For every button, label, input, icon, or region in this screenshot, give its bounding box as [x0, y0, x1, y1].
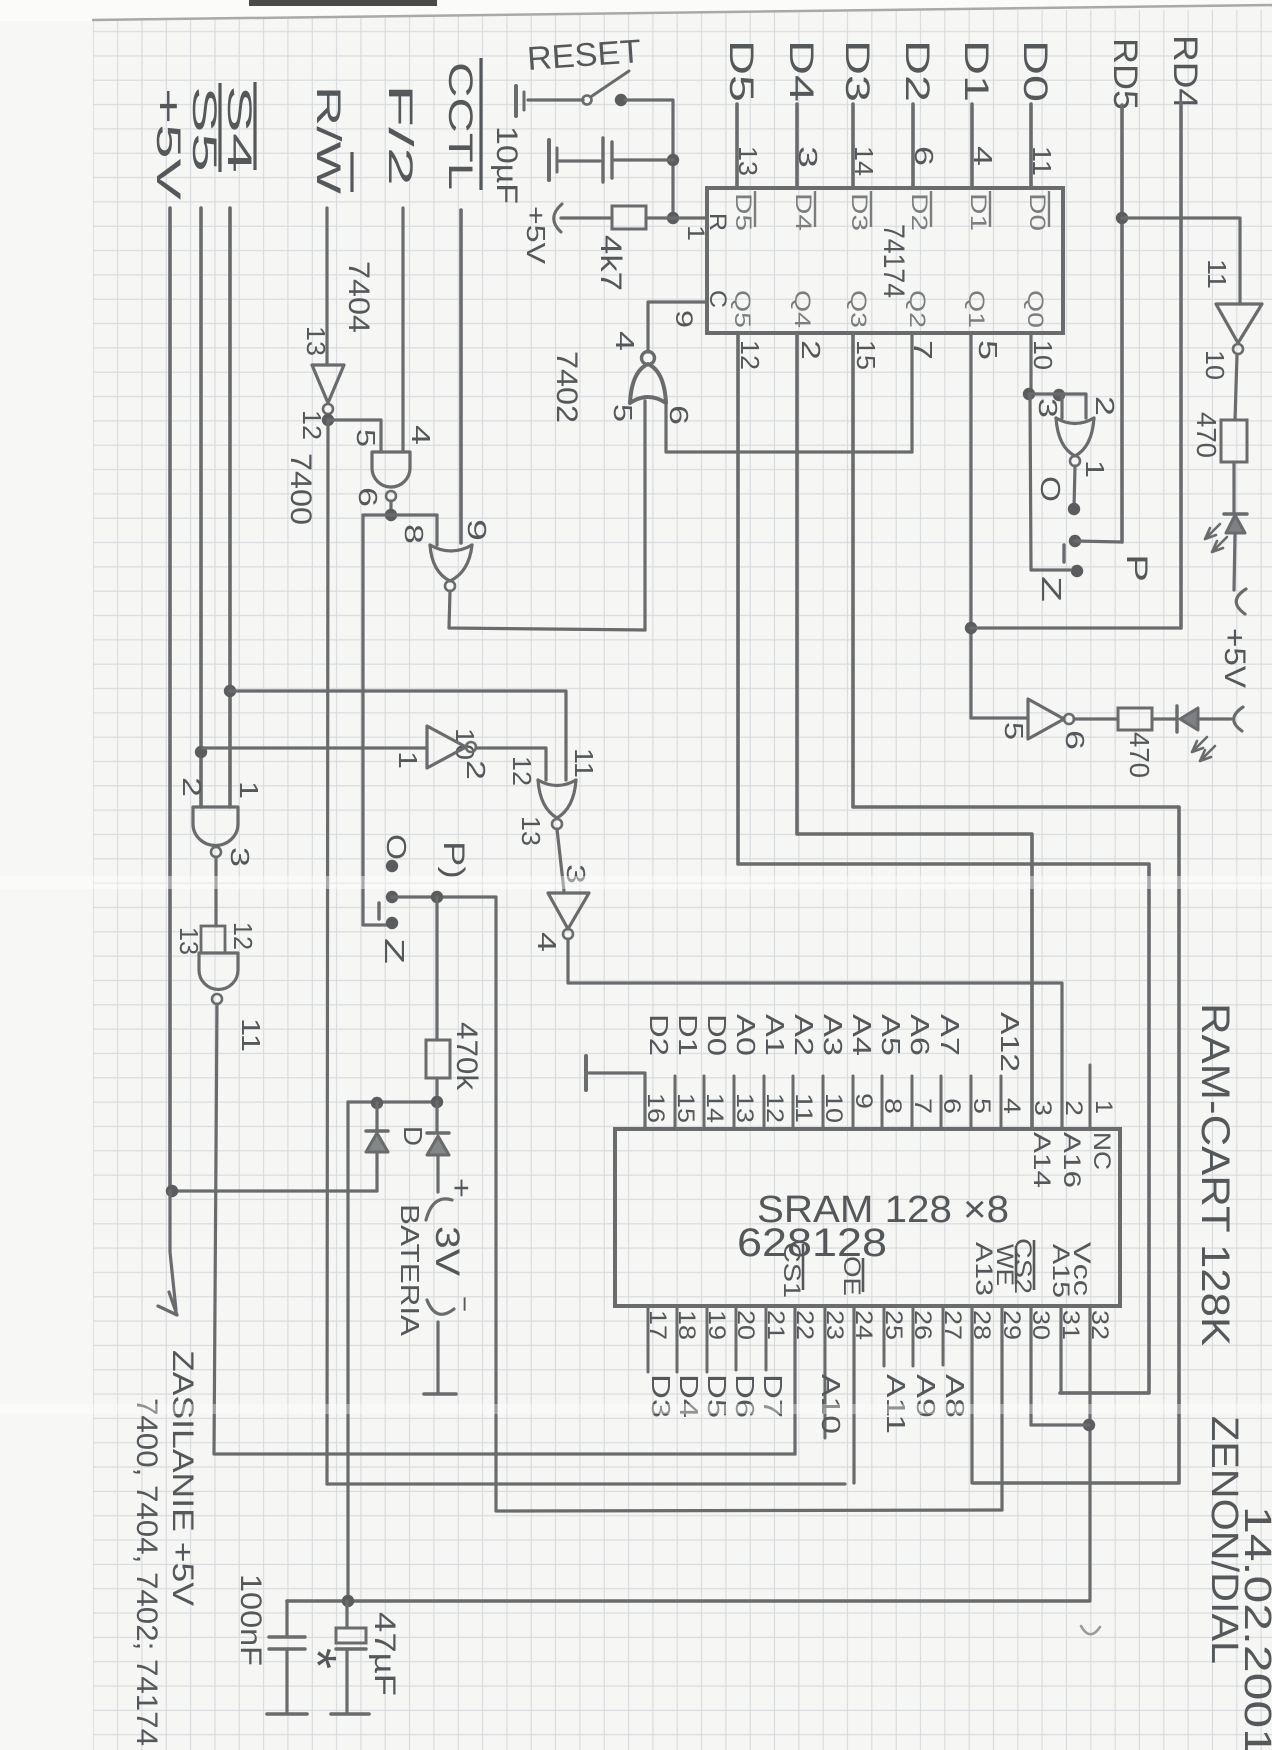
svg-text:D1: D1 [966, 193, 991, 231]
svg-text:R: R [704, 213, 731, 231]
wire battery rail [348, 1100, 438, 1103]
wire switch to node [625, 100, 673, 218]
nor gate 7402 2-3-1 [1056, 418, 1094, 424]
svg-text:1: 1 [1090, 1100, 1117, 1114]
wire +5V tap [172, 1189, 377, 1192]
svg-text:12: 12 [507, 756, 537, 786]
svg-text:5: 5 [968, 1098, 995, 1114]
svg-text:13: 13 [301, 326, 331, 356]
wire P to WE [392, 897, 1002, 1511]
wire R4 to LED2 [1152, 717, 1177, 720]
pin 26 (SRAM bottom) [912, 1306, 915, 1366]
wire NAND out [389, 501, 392, 515]
switch arm [377, 903, 380, 919]
junction [431, 891, 443, 903]
svg-text:*: * [287, 1648, 347, 1669]
wire Q0 node [1029, 394, 1086, 418]
wire CCTL rail [459, 210, 463, 543]
pin 14 (SRAM top) [703, 1076, 706, 1129]
inverter 7404 13-12 [312, 365, 344, 403]
svg-text:4: 4 [406, 425, 436, 445]
svg-text:Q1: Q1 [964, 290, 989, 328]
svg-text:RD4: RD4 [1166, 35, 1204, 109]
pin 31 wire [1059, 1306, 1062, 1393]
svg-text:12: 12 [761, 1093, 788, 1123]
svg-text:9: 9 [670, 310, 697, 328]
svg-text:A1: A1 [760, 1014, 790, 1056]
wire gnd to C1 [559, 159, 600, 162]
svg-text:31: 31 [1057, 1310, 1084, 1340]
wire RD5 to inverter 11 [1122, 218, 1240, 304]
wire NOR out 10 [449, 591, 645, 630]
ground (reset switch) [514, 86, 518, 116]
wire NAND out left branch [363, 515, 391, 925]
battery BT1 minus terminal [427, 1300, 454, 1314]
contact Z [386, 917, 398, 929]
wire CS2 to Vcc [1031, 1423, 1089, 1426]
pin 8 (SRAM top) [881, 1076, 884, 1129]
svg-text:100nF: 100nF [234, 1574, 267, 1666]
wire RD5 [1120, 105, 1124, 542]
pin 30 wire [1029, 1306, 1032, 1425]
wire R2 to LED1 [1232, 462, 1235, 514]
wire 470k bottom [435, 1078, 438, 1102]
svg-text:27: 27 [939, 1310, 966, 1340]
svg-text:Q3: Q3 [846, 290, 871, 328]
wire Q4 to A14 [797, 333, 1032, 1129]
IC U1 74174 hex D flip-flop [707, 188, 1063, 333]
wire inverter to R4 [1074, 717, 1118, 720]
diode D2 [435, 1102, 438, 1133]
wire RD4 to Q1 [971, 626, 1181, 629]
wire +5V rail [168, 208, 172, 1191]
pin 28 wire [970, 1306, 973, 1483]
svg-text:3V: 3V [428, 1226, 466, 1276]
pin 24 wire [852, 1306, 855, 1483]
wire D3 [851, 104, 855, 188]
wire D0 [1029, 104, 1033, 188]
wire P contact to RD5 [1075, 541, 1122, 542]
svg-text:4: 4 [610, 331, 640, 351]
ground connector arc [1081, 1626, 1100, 1634]
svg-text:D0: D0 [1025, 193, 1050, 231]
pin 9 (SRAM top) [852, 1076, 855, 1129]
svg-text:4: 4 [532, 932, 562, 952]
svg-text:11: 11 [790, 1093, 817, 1123]
pin 12 (SRAM top) [763, 1076, 766, 1129]
wire S4 junction [224, 685, 236, 697]
power +5V (reset pullup) [554, 204, 562, 232]
wire S4 to NOR input 11 [230, 691, 566, 780]
svg-text:D0: D0 [702, 1014, 732, 1056]
capacitor C1 10uF [601, 138, 604, 182]
svg-text:2: 2 [177, 777, 207, 797]
wire reset to switch [528, 98, 583, 101]
wire F/2 rail [401, 208, 404, 452]
junction [385, 509, 397, 521]
svg-text:10: 10 [820, 1093, 847, 1123]
wire Q0 stub [1029, 333, 1032, 394]
svg-text:3: 3 [1033, 398, 1063, 418]
svg-text:5: 5 [999, 722, 1029, 740]
svg-text:D1: D1 [673, 1014, 703, 1056]
svg-text:CS2: CS2 [1009, 1238, 1036, 1294]
svg-text:5: 5 [608, 404, 638, 422]
svg-text:12: 12 [297, 410, 327, 440]
svg-text:15: 15 [672, 1093, 699, 1123]
wire A15 link [1060, 1391, 1149, 1394]
battery BT1 3V plus terminal [426, 1199, 452, 1220]
pin 13 (SRAM top) [733, 1076, 736, 1129]
svg-text:470: 470 [1191, 412, 1222, 458]
junction [431, 1096, 443, 1108]
wire D4 [795, 104, 799, 188]
svg-text:3: 3 [1029, 1100, 1056, 1116]
junction [322, 414, 334, 426]
svg-text:2: 2 [1060, 1100, 1087, 1116]
pin 1 (SRAM NC) [1089, 1065, 1092, 1129]
wire inverter4 out to SRAM A16 [568, 939, 1062, 1129]
svg-text:+5V: +5V [1218, 628, 1251, 688]
pin 17 (SRAM bottom) [647, 1306, 650, 1372]
power +5V connector [1234, 707, 1243, 731]
svg-text:R/W: R/W [309, 86, 347, 194]
svg-text:A14: A14 [1028, 1132, 1055, 1188]
svg-text:RD5: RD5 [1106, 38, 1144, 110]
svg-text:10: 10 [1200, 350, 1230, 380]
wire D2 [911, 104, 915, 188]
wire Q2 to gate [910, 333, 913, 452]
svg-text:30: 30 [1027, 1310, 1054, 1340]
svg-text:D4: D4 [782, 40, 820, 102]
svg-text:2: 2 [461, 760, 491, 780]
junction [667, 154, 679, 166]
wire pin16 D2 to bar [589, 1073, 645, 1129]
pin 22 wire [793, 1306, 796, 1454]
junction [166, 1185, 178, 1197]
nand gate 7400 1-2-3 [193, 807, 238, 845]
svg-text:7404: 7404 [342, 261, 375, 333]
scan band [0, 876, 1272, 889]
svg-text:Z: Z [379, 938, 410, 964]
capacitor C3 47uF [345, 1601, 348, 1628]
svg-text:7400, 7404, 7402; 74174: 7400, 7404, 7402; 74174 [130, 1398, 163, 1746]
pin 15 (SRAM top) [674, 1076, 677, 1129]
nand gate 7400 4-5-6 [372, 452, 410, 487]
junction [1083, 1419, 1095, 1431]
svg-text:A0: A0 [731, 1014, 761, 1056]
IC U2 SRAM 628128 [615, 1129, 1120, 1306]
wire 470k top [435, 897, 438, 1040]
nand gate 7400 13-12-11 [199, 953, 238, 990]
svg-text:74174: 74174 [877, 224, 910, 298]
inverter 7404 3-4 [548, 893, 589, 929]
svg-text:Z: Z [1036, 576, 1067, 602]
switch S RESET [583, 96, 592, 105]
terminal bar [584, 1056, 588, 1090]
wire OE line [327, 1482, 845, 1485]
pin 10 (SRAM top) [822, 1076, 825, 1129]
contact Z [1071, 565, 1083, 577]
svg-text:+5V: +5V [521, 206, 551, 265]
pin 5 (SRAM top) [970, 1076, 973, 1129]
wire NAND1 out [214, 857, 217, 926]
svg-text:D1: D1 [957, 40, 995, 102]
svg-text:13: 13 [731, 1093, 758, 1123]
inverter 7404 11-10 [1216, 304, 1262, 343]
svg-text:S5: S5 [185, 86, 223, 172]
svg-text:F/2: F/2 [381, 84, 419, 186]
svg-text:Q0: Q0 [1023, 290, 1048, 328]
svg-text:A3: A3 [818, 1014, 848, 1056]
wire inv out to NOR input 12 [476, 748, 546, 780]
resistor R2 470 [1221, 420, 1247, 462]
svg-text:D4: D4 [791, 193, 816, 231]
svg-text:ZASILANIE +5V: ZASILANIE +5V [166, 1350, 199, 1606]
junction [1053, 389, 1065, 401]
wire Q1 to inverter 5 [971, 333, 1028, 718]
svg-text:20: 20 [732, 1310, 759, 1340]
wire rail down [346, 1102, 349, 1601]
wire S4 rail [228, 208, 232, 807]
pin 18 (SRAM bottom) [676, 1306, 679, 1372]
svg-text:D5: D5 [722, 40, 760, 102]
LED LED1 [1224, 512, 1247, 515]
svg-text:NC: NC [1088, 1132, 1115, 1170]
svg-text:OE: OE [838, 1256, 865, 1296]
svg-text:Q4: Q4 [790, 290, 815, 328]
svg-text:RAM-CART 128K: RAM-CART 128K [1193, 1003, 1237, 1346]
svg-text:32: 32 [1086, 1310, 1113, 1340]
svg-text:A4: A4 [847, 1014, 877, 1056]
svg-text:7402: 7402 [550, 351, 583, 423]
svg-text:P): P) [437, 841, 470, 879]
nor gate 7402 11-12-13 [538, 780, 576, 786]
wire NAND2 out to CS1 [214, 1004, 795, 1454]
svg-text:5: 5 [351, 429, 381, 447]
svg-text:7400: 7400 [284, 453, 317, 525]
svg-text:16: 16 [642, 1093, 669, 1123]
pin 4 (SRAM top) [1000, 1076, 1003, 1129]
svg-text:1: 1 [234, 781, 264, 799]
svg-text:D3: D3 [847, 193, 872, 231]
svg-text:26: 26 [909, 1310, 936, 1340]
power +5V connector [1236, 589, 1246, 614]
svg-text:15: 15 [851, 340, 881, 370]
wire inverter to R2 [1235, 355, 1237, 420]
wire S5 rail [199, 208, 203, 807]
resistor R4 470 [1118, 708, 1152, 730]
wire RD4 [1179, 102, 1183, 628]
junction [1023, 388, 1035, 400]
wire Q5 to A15 [738, 333, 1149, 1393]
wire S5 to inverter 1 [203, 746, 427, 749]
svg-text:10µF: 10µF [490, 126, 523, 204]
svg-text:D2: D2 [907, 193, 932, 231]
pin 32 Vcc wire [1088, 1306, 1091, 1601]
junction [667, 212, 679, 224]
paper left margin [0, 0, 93, 1750]
junction [371, 1097, 383, 1109]
svg-text:1: 1 [393, 751, 423, 769]
svg-text:8: 8 [879, 1098, 906, 1114]
junction [342, 1595, 354, 1607]
pin 29 wire [1000, 1306, 1003, 1510]
resistor R1 4k7 [612, 206, 646, 229]
svg-text:11: 11 [236, 1018, 266, 1052]
wire LED1 to +5V [1234, 533, 1235, 590]
svg-text:S4: S4 [220, 85, 258, 173]
junction RD5/RD4 link [1116, 212, 1128, 224]
wire R1 to 74174 R pin [646, 216, 707, 219]
svg-text:4k7: 4k7 [594, 235, 627, 291]
svg-text:1: 1 [1080, 460, 1110, 478]
svg-text:13: 13 [174, 927, 204, 955]
svg-text:14: 14 [701, 1093, 728, 1123]
LED LED2 [1175, 706, 1178, 732]
svg-text:3: 3 [225, 847, 255, 867]
svg-text:470k: 470k [450, 1022, 483, 1091]
svg-text:D5: D5 [731, 193, 756, 231]
pin 21 (SRAM bottom) [765, 1306, 768, 1370]
pin 20 (SRAM bottom) [735, 1306, 738, 1370]
svg-text:6: 6 [938, 1098, 965, 1114]
svg-text:2: 2 [1090, 396, 1120, 416]
pin 11 (SRAM top) [792, 1076, 795, 1129]
contact P [386, 891, 398, 903]
junction [195, 746, 207, 758]
svg-text:A16: A16 [1058, 1132, 1085, 1188]
contact O [1068, 503, 1080, 515]
svg-text:−: − [450, 1296, 480, 1312]
contact P [1069, 535, 1081, 547]
svg-text:9: 9 [850, 1093, 877, 1109]
wire +5V to arrow [170, 1191, 176, 1310]
inverter 7404 5-6 [1028, 699, 1064, 739]
wire NOR out stem [1074, 466, 1075, 508]
paper top edge [0, 0, 1272, 21]
svg-text:2: 2 [796, 340, 826, 360]
wire input pair box [201, 926, 225, 953]
capacitor C2 100nF [285, 1601, 288, 1637]
svg-text:25: 25 [880, 1310, 907, 1340]
pin 6 (SRAM top) [940, 1076, 943, 1129]
svg-text:19: 19 [703, 1310, 730, 1340]
svg-text:D: D [398, 1126, 428, 1146]
svg-text:11: 11 [569, 748, 599, 778]
svg-text:11: 11 [1202, 259, 1232, 289]
svg-text:A7: A7 [935, 1014, 965, 1056]
ground (capacitor C1) [547, 140, 551, 180]
svg-text:6: 6 [353, 487, 383, 507]
svg-text:14.02.2001: 14.02.2001 [1236, 1506, 1272, 1750]
wire Z contact [1030, 394, 1070, 570]
pin 23 (SRAM bottom) [824, 1306, 827, 1438]
nor gate 7402 8-9-10 [430, 545, 472, 551]
switch arm [1062, 545, 1065, 562]
svg-text:6: 6 [1060, 730, 1090, 750]
resistor R3 470k [426, 1040, 450, 1078]
svg-text:24: 24 [850, 1310, 877, 1340]
junction [965, 622, 977, 634]
svg-text:47µF: 47µF [368, 1612, 401, 1696]
svg-text:7: 7 [909, 1098, 936, 1114]
wire D5 [735, 104, 739, 188]
wire NAND out right branch [391, 515, 437, 545]
svg-text:CS1: CS1 [778, 1242, 805, 1298]
svg-text:Q5: Q5 [730, 290, 755, 328]
svg-text:22: 22 [791, 1310, 818, 1340]
wire NOR13 out [557, 829, 564, 891]
svg-text:D3: D3 [838, 40, 876, 102]
wire NOR input 3 [1060, 395, 1063, 418]
svg-text:D2: D2 [644, 1014, 674, 1056]
svg-text:O: O [381, 834, 412, 860]
svg-text:+5V: +5V [149, 88, 187, 201]
svg-text:13: 13 [516, 816, 546, 846]
pin 25 (SRAM bottom) [883, 1306, 886, 1366]
svg-text:A5: A5 [876, 1014, 906, 1056]
contact O [386, 860, 398, 872]
svg-text:BATERIA: BATERIA [395, 1204, 425, 1337]
svg-text:9: 9 [462, 519, 492, 541]
svg-text:Vcc: Vcc [1068, 1242, 1095, 1296]
wire to NAND input 5 [328, 420, 381, 452]
svg-text:5: 5 [973, 340, 1003, 360]
svg-text:470: 470 [1124, 732, 1155, 778]
pin 27 (SRAM bottom) [942, 1306, 945, 1365]
wire Q3 to A13 [853, 333, 1179, 1483]
wire 74174 C pin [648, 302, 707, 352]
wire 7402 pin5 input [643, 401, 646, 630]
pin 19 (SRAM bottom) [706, 1306, 709, 1372]
svg-text:4: 4 [998, 1098, 1025, 1114]
diode D1 [375, 1103, 378, 1131]
wire inverter out [327, 420, 328, 1484]
svg-text:18: 18 [673, 1310, 700, 1340]
svg-text:21: 21 [762, 1310, 789, 1340]
svg-text:29: 29 [998, 1310, 1025, 1340]
svg-text:17: 17 [644, 1310, 671, 1340]
wire LED2 to +5V [1198, 717, 1231, 720]
svg-text:A12: A12 [995, 1012, 1025, 1072]
wire D1 [970, 104, 974, 188]
wire ground rail [287, 1599, 1089, 1603]
pin 7 (SRAM top) [911, 1076, 914, 1129]
svg-text:P: P [1120, 554, 1153, 582]
svg-text:+: + [446, 1178, 477, 1198]
wire +5V to R1 [561, 216, 612, 219]
svg-text:6: 6 [664, 405, 694, 425]
wire 7402 pin6 input [666, 401, 912, 452]
svg-text:C: C [704, 290, 731, 308]
arrow head [158, 1292, 177, 1315]
wire battery bottom [436, 1322, 439, 1392]
wire R/W rail [325, 208, 328, 365]
svg-text:23: 23 [821, 1310, 848, 1340]
svg-text:A6: A6 [905, 1014, 935, 1056]
svg-text:8: 8 [399, 524, 429, 544]
svg-text:O: O [1035, 476, 1066, 502]
svg-text:A2: A2 [789, 1014, 819, 1056]
svg-text:12: 12 [228, 922, 258, 950]
svg-text:D2: D2 [898, 40, 936, 102]
svg-text:D0: D0 [1016, 40, 1054, 102]
svg-text:CCTL: CCTL [441, 62, 479, 190]
svg-text:Q2: Q2 [905, 290, 930, 328]
svg-text:28: 28 [968, 1310, 995, 1340]
